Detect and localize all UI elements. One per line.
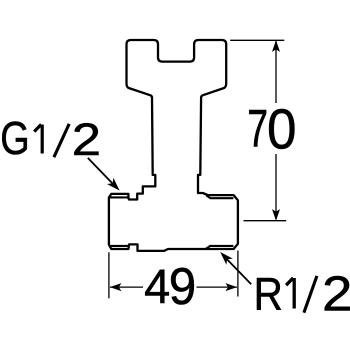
svg-text:2: 2	[322, 266, 350, 321]
svg-text:2: 2	[72, 115, 101, 165]
svg-text:4: 4	[144, 261, 170, 315]
arrow left	[110, 283, 122, 291]
dimension 49: horizontal line segments	[110, 286, 143, 288]
text 49	[144, 257, 196, 316]
svg-text:R: R	[254, 270, 283, 321]
dimension 49: right extension line	[237, 251, 239, 297]
G1/2 arrowhead	[107, 178, 120, 191]
valve body + handle outline	[109, 40, 238, 251]
dimension 70: vertical line segments	[275, 41, 277, 103]
dimension 70: top extension line	[230, 39, 284, 41]
arrow up	[272, 40, 280, 52]
left thread root lines	[110, 197, 130, 246]
R1/2 arrowhead	[220, 252, 233, 265]
svg-text:9: 9	[169, 257, 196, 316]
G1/2 leader line	[88, 158, 113, 184]
right thread root lines	[206, 195, 233, 249]
dimension 49: left extension line	[108, 252, 110, 298]
svg-text:0: 0	[267, 98, 297, 161]
arrow down	[272, 209, 280, 221]
svg-text:G: G	[0, 113, 29, 164]
text 70	[247, 98, 296, 161]
G1/2 label	[0, 113, 101, 165]
arrow right	[226, 283, 238, 291]
svg-text:7: 7	[247, 99, 268, 158]
R1/2 label	[254, 266, 350, 321]
dimension 70: bottom extension (centerline)	[244, 220, 287, 222]
R1/2 leader line	[226, 258, 251, 284]
